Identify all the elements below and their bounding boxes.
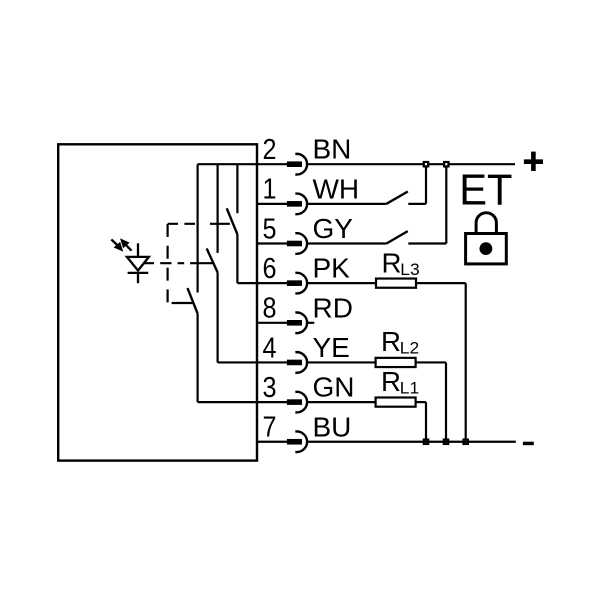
wire: v1 to pin 3 (198, 401, 257, 403)
svg-text:PK: PK (313, 253, 351, 284)
LED photo-sensor D1 cathode lead (137, 273, 139, 283)
wire: internal BN rail (198, 163, 257, 165)
wire: branch v1 lower (197, 314, 199, 403)
wire: branch v2 lower (217, 272, 219, 362)
wire: PK to load resistor (307, 282, 376, 284)
svg-text:WH: WH (313, 173, 360, 204)
pin 2 socket arc (295, 154, 307, 175)
wire: GN to load resistor (307, 401, 376, 403)
pin 5 male contact bar (287, 241, 302, 247)
pin 4 socket arc (295, 352, 307, 373)
switch ET1 blade (WH) (387, 192, 408, 204)
svg-text:L1: L1 (400, 379, 419, 398)
svg-text:2: 2 (263, 134, 277, 166)
wire: BN to + rail (307, 163, 515, 165)
junction: GY on + rail (444, 162, 448, 166)
dashed actuation link: vertical member (167, 224, 169, 303)
svg-text:5: 5 (263, 213, 277, 245)
padlock body (466, 234, 507, 264)
svg-text:7: 7 (263, 412, 277, 444)
svg-text:1: 1 (263, 174, 277, 206)
dashed actuation link: LED to switch S2 blade (horizontal) (144, 262, 213, 264)
svg-text:BN: BN (313, 134, 352, 165)
svg-text:YE: YE (313, 332, 350, 363)
dashed actuation link: to switch S1 blade (top horizontal) (168, 223, 230, 225)
svg-text:8: 8 (263, 293, 277, 325)
wire: RD stub (not connected) (307, 322, 314, 324)
pin 5 socket arc (295, 233, 307, 254)
pin 6 socket arc (295, 273, 307, 294)
wire: branch v2 upper (217, 164, 219, 253)
light arrow out of LED (right) (121, 239, 132, 251)
svg-text:RD: RD (313, 292, 353, 323)
wire: YE drop to - rail (445, 362, 447, 441)
svg-text:R: R (382, 248, 402, 279)
pin 7 stub wire (257, 441, 288, 443)
pin 8 socket arc (295, 313, 307, 334)
pin 3 socket arc (295, 392, 307, 413)
pin 6 stub wire (257, 282, 288, 284)
svg-text:GN: GN (313, 372, 355, 403)
pin 1 stub wire (257, 203, 288, 205)
wire: v2 to pin 4 (218, 361, 257, 363)
pin 5 stub wire (257, 242, 288, 244)
switch S1 blade (to PK) (227, 208, 238, 234)
wire: branch v1 upper (197, 164, 199, 292)
padlock shackle (476, 213, 496, 234)
junction: WH on + rail (424, 162, 428, 166)
switch S2 blade (to YE) (207, 249, 218, 273)
resistor RL3 (376, 279, 416, 288)
svg-text:BU: BU (313, 411, 352, 442)
svg-text:L2: L2 (400, 339, 419, 358)
minus terminal (523, 442, 534, 446)
pin 4 male contact bar (287, 360, 302, 366)
pin 8 male contact bar (287, 320, 302, 326)
pin 2 stub wire (257, 163, 288, 165)
switch ET2 blade (GY) (387, 231, 408, 243)
sensor body box (58, 144, 257, 460)
switch S3 blade (to GN) (188, 288, 198, 314)
wire: GY riser to + rail (445, 164, 447, 243)
wire: BU to - rail (307, 441, 516, 443)
wire: branch v3 lower (236, 234, 238, 283)
pin 7 male contact bar (287, 439, 302, 445)
pin 1 male contact bar (287, 201, 302, 207)
wire: PK drop to - rail (465, 283, 467, 442)
padlock keyhole dot (480, 242, 493, 255)
LED photo-sensor D1 anode lead (137, 243, 139, 257)
pin 4 stub wire (257, 361, 288, 363)
pin 7 socket arc (295, 431, 307, 452)
svg-text:R: R (381, 326, 401, 357)
resistor RL2 (376, 358, 416, 367)
wire: branch v3 upper (236, 164, 238, 213)
wire: GY after switch (408, 242, 446, 244)
junction: GN on - rail (424, 440, 428, 444)
svg-text:GY: GY (313, 213, 354, 244)
junction: PK on - rail (464, 440, 468, 444)
svg-text:R: R (381, 366, 401, 397)
wire: GY segment (307, 242, 387, 244)
pin 6 male contact bar (287, 280, 302, 286)
pin 1 socket arc (295, 194, 307, 215)
pin 8 stub wire (257, 322, 288, 324)
svg-text:L3: L3 (400, 260, 419, 279)
svg-text:ET: ET (459, 167, 512, 215)
resistor RL1 (376, 398, 416, 407)
dashed actuation link: to switch S3 blade (bottom horizontal) (172, 302, 193, 304)
pin 3 male contact bar (287, 399, 302, 405)
wire: YE to load resistor (307, 361, 376, 363)
pin 3 stub wire (257, 401, 288, 403)
junction: YE on - rail (444, 440, 448, 444)
LED photo-sensor D1 cathode bar (128, 272, 149, 274)
wire: WH after switch (408, 203, 426, 205)
svg-text:6: 6 (263, 253, 277, 285)
light arrow into LED (left) (111, 239, 122, 251)
wire: GN after resistor (416, 401, 426, 403)
wire: PK after resistor (416, 282, 466, 284)
pin 2 male contact bar (287, 161, 302, 167)
svg-text:4: 4 (263, 332, 277, 364)
wire: WH riser to + rail (425, 164, 427, 204)
wire: v3 to pin 6 (237, 282, 257, 284)
wire: YE after resistor (416, 361, 446, 363)
svg-text:3: 3 (263, 372, 277, 404)
LED photo-sensor D1 triangle (127, 257, 149, 271)
plus terminal (524, 159, 543, 164)
wire: WH segment (307, 203, 387, 205)
wire: GN drop to - rail (425, 402, 427, 442)
